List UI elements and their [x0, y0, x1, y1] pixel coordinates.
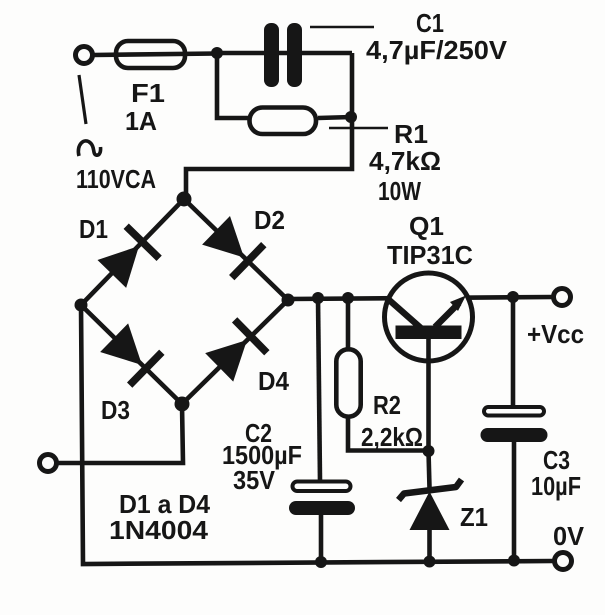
- capacitor C2 top plate: [293, 482, 351, 492]
- wire R1 right lead: [318, 117, 352, 118]
- node C2 ground: [315, 556, 327, 568]
- wire C2 to ground rail: [319, 515, 324, 562]
- pointer line to C1 label: [310, 26, 374, 29]
- bridge edge top-right: [184, 199, 288, 300]
- bridge node top: [177, 192, 192, 207]
- svg-text:4,7µF/250V: 4,7µF/250V: [366, 35, 508, 65]
- diode D1: [95, 224, 161, 290]
- wire to C1: [217, 51, 352, 56]
- zener Z1 cathode bar: [399, 480, 462, 501]
- svg-text:2,2kΩ: 2,2kΩ: [361, 422, 423, 452]
- AC tilde symbol: [78, 141, 100, 156]
- AC source lead line: [79, 75, 86, 124]
- wire C3 branch down: [511, 297, 516, 406]
- svg-text:10W: 10W: [378, 176, 421, 206]
- Q1 base lead down: [426, 338, 431, 452]
- node junction R1/C1 right: [345, 111, 357, 123]
- wire positive rail from bridge to +Vcc terminal: [288, 297, 553, 299]
- capacitor C1: [264, 23, 302, 87]
- terminal AC top: [76, 47, 93, 64]
- fuse F1: [116, 41, 185, 68]
- bridge node bottom: [175, 397, 190, 412]
- svg-text:TIP31C: TIP31C: [387, 240, 473, 270]
- svg-text:1N4004: 1N4004: [109, 515, 209, 545]
- wire R2 branch down: [346, 298, 351, 348]
- bridge edge bottom-left: [81, 305, 182, 404]
- svg-text:D2: D2: [254, 205, 285, 235]
- svg-text:R1: R1: [394, 119, 428, 149]
- diode D3: [98, 321, 164, 387]
- capacitor C3 bottom plate: [481, 428, 548, 442]
- Q1 emitter lead: [435, 303, 459, 327]
- svg-text:Z1: Z1: [460, 502, 488, 532]
- terminal 0V: [555, 553, 572, 570]
- svg-text:Q1: Q1: [409, 211, 444, 241]
- capacitor C3 top plate: [484, 407, 544, 416]
- wire zener to ground rail: [427, 530, 432, 562]
- capacitor C2 bottom plate: [289, 501, 355, 515]
- diode D4: [203, 317, 269, 383]
- wire from top terminal through fuse to node: [93, 54, 217, 56]
- wire C3 to ground rail: [512, 442, 517, 561]
- zener Z1 triangle: [410, 492, 450, 531]
- pointer line to R1 label: [329, 127, 388, 130]
- Q1 base bar: [396, 326, 462, 340]
- terminal AC bottom: [40, 455, 57, 472]
- node junction after fuse: [211, 47, 223, 59]
- bridge edge top-left: [81, 199, 184, 305]
- wire left branch to R1: [217, 53, 248, 118]
- node C3 ground: [508, 555, 520, 567]
- bridge node left: [75, 299, 88, 312]
- wire R2 bottom lead to base node: [348, 418, 429, 451]
- svg-text:10µF: 10µF: [531, 471, 581, 501]
- svg-text:4,7kΩ: 4,7kΩ: [369, 146, 441, 176]
- node zener ground: [424, 556, 436, 568]
- svg-text:F1: F1: [131, 78, 165, 108]
- wire bottom AC to bridge bottom node: [57, 405, 183, 463]
- svg-text:D3: D3: [101, 395, 130, 425]
- transistor Q1: [385, 273, 473, 361]
- resistor R1: [250, 108, 317, 135]
- terminal +Vcc: [554, 289, 571, 306]
- Q1 emitter arrowhead: [450, 296, 466, 312]
- svg-text:1A: 1A: [125, 106, 157, 136]
- wire right branch down to bridge top: [186, 53, 352, 200]
- bridge node right: [282, 294, 295, 307]
- resistor R2: [336, 349, 360, 416]
- bridge edge bottom-right: [182, 300, 288, 404]
- node C3 branch: [507, 291, 519, 303]
- svg-text:D1: D1: [79, 214, 108, 244]
- wire bridge left node to ground rail and ground rail: [81, 305, 553, 564]
- diode D2: [200, 214, 266, 280]
- node R2 branch: [342, 292, 354, 304]
- node base/R2/zener: [423, 445, 435, 457]
- svg-text:R2: R2: [373, 390, 401, 420]
- svg-text:D4: D4: [258, 366, 289, 396]
- svg-text:110VCA: 110VCA: [76, 164, 156, 194]
- node C2 branch: [312, 292, 324, 304]
- wire base node to zener: [429, 451, 430, 488]
- svg-text:0V: 0V: [553, 521, 585, 551]
- Q1 collector lead: [388, 299, 422, 329]
- svg-text:+Vcc: +Vcc: [527, 319, 584, 349]
- svg-text:C1: C1: [416, 8, 444, 38]
- wire C2 branch down: [318, 298, 320, 481]
- svg-text:35V: 35V: [233, 465, 276, 495]
